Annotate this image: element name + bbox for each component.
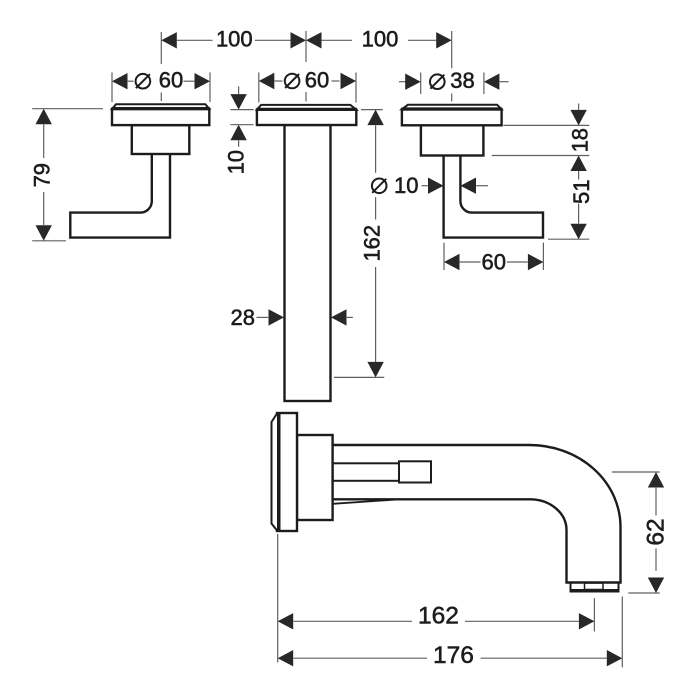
svg-text:79: 79 [29, 163, 54, 187]
svg-text:18: 18 [568, 128, 593, 152]
svg-text:176: 176 [433, 642, 474, 669]
svg-text:60: 60 [159, 68, 183, 93]
svg-text:38: 38 [450, 68, 474, 93]
svg-text:162: 162 [360, 225, 385, 262]
svg-text:100: 100 [216, 26, 253, 51]
svg-text:51: 51 [569, 180, 594, 204]
svg-text:28: 28 [230, 305, 254, 330]
svg-text:62: 62 [642, 518, 669, 545]
svg-text:10: 10 [224, 150, 249, 174]
svg-text:60: 60 [482, 250, 506, 275]
svg-text:10: 10 [394, 173, 418, 198]
svg-text:100: 100 [362, 26, 399, 51]
svg-text:162: 162 [418, 602, 459, 629]
svg-text:60: 60 [305, 68, 329, 93]
